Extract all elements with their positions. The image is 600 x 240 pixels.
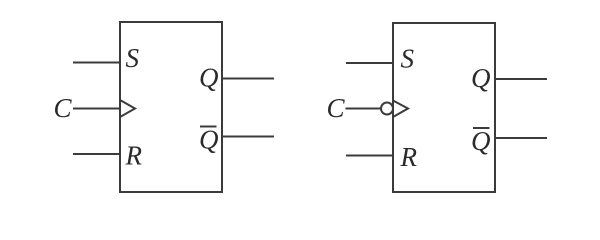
svg-text:C: C <box>327 93 346 123</box>
flip-flop U2 (negative-edge clocked SR flip-flop) <box>346 23 548 192</box>
svg-text:S: S <box>126 43 140 73</box>
wire Q output U2 <box>495 78 547 80</box>
wire S input U1 <box>73 62 120 64</box>
svg-text:R: R <box>400 142 418 172</box>
wire C clock input U2 <box>346 108 382 110</box>
svg-text:Q: Q <box>199 63 219 93</box>
wire Qbar output U2 <box>495 137 547 139</box>
inversion bubble on U2 clock <box>381 103 393 115</box>
wire S input U2 <box>346 62 393 64</box>
svg-text:Q: Q <box>471 126 491 156</box>
wire Q output U1 <box>222 78 274 80</box>
wire Qbar output U1 <box>222 136 274 138</box>
clock edge triangle U1 <box>120 100 135 117</box>
overline of Qbar label U2 <box>473 127 490 129</box>
wire R input U1 <box>73 153 120 155</box>
wire R input U2 <box>346 155 393 157</box>
svg-text:S: S <box>401 44 415 74</box>
svg-text:R: R <box>125 141 143 171</box>
wire C clock input U1 <box>73 108 120 110</box>
overline of Qbar label U1 <box>200 126 217 128</box>
flip-flop U2 body <box>393 23 495 192</box>
flip-flop U1 body <box>120 22 222 192</box>
svg-text:C: C <box>54 93 73 123</box>
clock edge triangle U2 <box>393 101 408 118</box>
svg-text:Q: Q <box>471 63 491 93</box>
svg-text:Q: Q <box>199 125 219 155</box>
flip-flop U1 (positive-edge clocked SR flip-flop) <box>73 22 274 192</box>
